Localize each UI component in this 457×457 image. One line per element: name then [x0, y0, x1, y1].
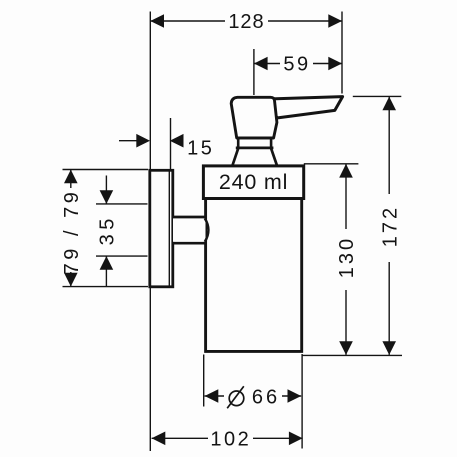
svg-text:240 ml: 240 ml [219, 170, 288, 194]
svg-text:66: 66 [252, 387, 280, 409]
svg-text:172: 172 [379, 205, 401, 247]
svg-text:79 / 79: 79 / 79 [61, 189, 83, 275]
svg-text:35: 35 [97, 214, 119, 245]
svg-text:59: 59 [283, 54, 310, 76]
svg-text:102: 102 [210, 428, 251, 450]
svg-text:15: 15 [187, 137, 214, 159]
svg-text:130: 130 [336, 236, 358, 278]
svg-text:128: 128 [228, 11, 264, 33]
